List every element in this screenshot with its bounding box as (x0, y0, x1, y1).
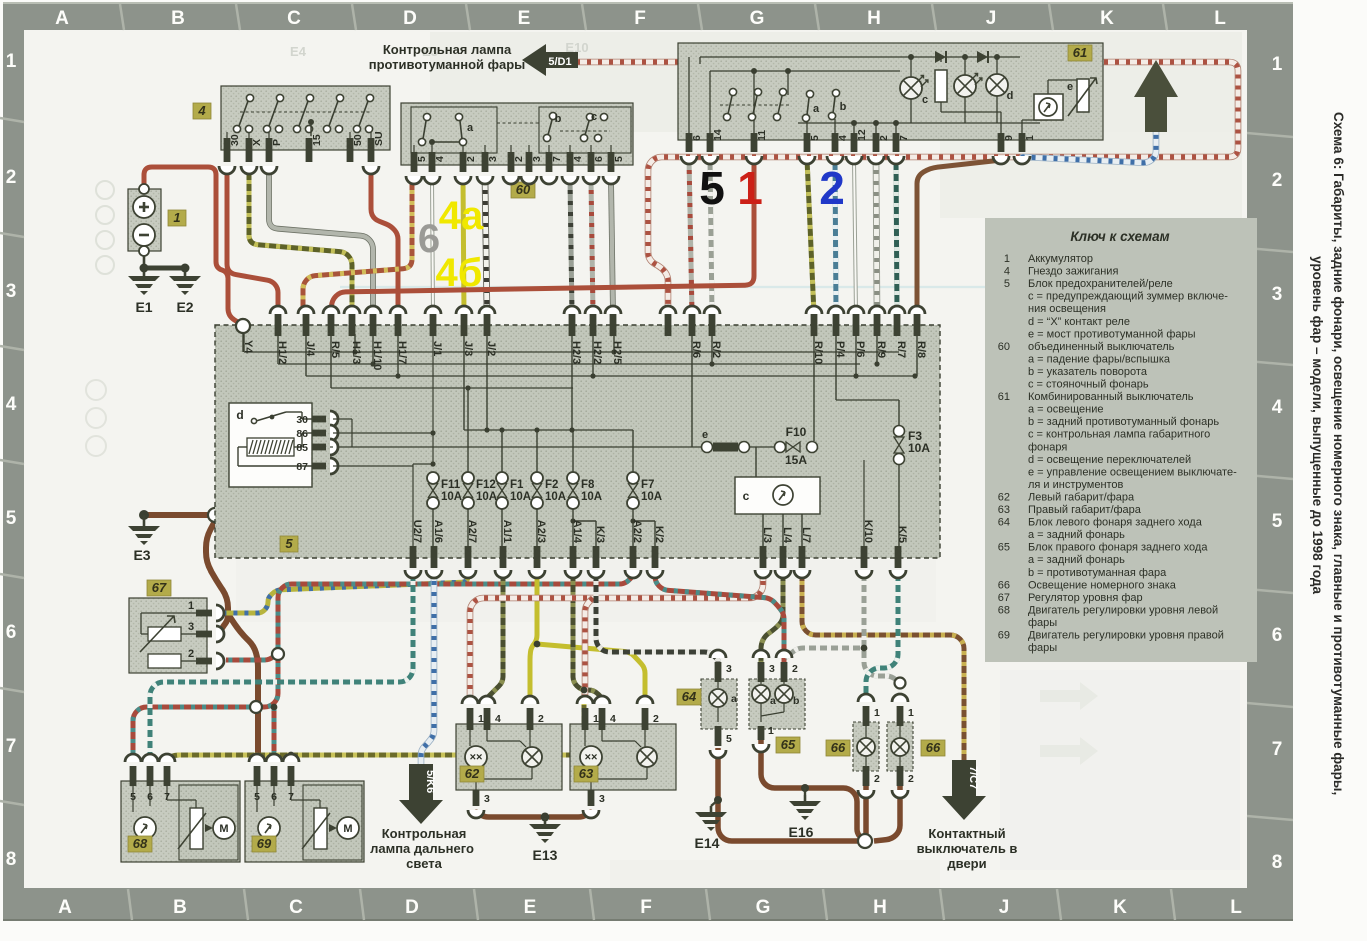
svg-text:E1: E1 (135, 299, 152, 315)
ground E13 (529, 818, 561, 863)
junction dot E13 (541, 813, 550, 822)
svg-text:J/3: J/3 (462, 341, 474, 356)
svg-text:3: 3 (599, 793, 605, 805)
svg-text:64: 64 (682, 689, 697, 704)
svg-text:87: 87 (296, 461, 308, 473)
svg-text:SU: SU (373, 131, 385, 146)
svg-text:F8: F8 (581, 479, 595, 491)
svg-text:F: F (640, 897, 652, 918)
svg-text:b: b (840, 101, 847, 113)
wire 61.12-P/6 (854, 159, 856, 314)
svg-text:P/4: P/4 (834, 341, 846, 358)
svg-text:Y4: Y4 (242, 340, 254, 354)
badge 65 (776, 737, 800, 753)
svg-text:66: 66 (831, 740, 846, 755)
junction dot E14 (714, 796, 722, 804)
svg-text:H1/10: H1/10 (371, 341, 383, 370)
svg-text:15A: 15A (785, 453, 807, 467)
svg-text:66: 66 (926, 740, 941, 755)
svg-text:63: 63 (998, 504, 1010, 516)
gauge 61 (1034, 94, 1063, 120)
svg-text:4: 4 (197, 103, 206, 118)
node red/teal bundle junction 2 (272, 648, 284, 660)
gauge 69 (258, 817, 280, 839)
block 65 reversing/foglamp unit right (749, 679, 805, 729)
svg-text:c = контрольная лампа габаритн: c = контрольная лампа габаритного (1028, 429, 1210, 441)
svg-text:4б: 4б (436, 251, 483, 295)
svg-text:Комбинированный выключатель: Комбинированный выключатель (1028, 391, 1194, 403)
junction dot 69.6 tap (271, 704, 278, 711)
svg-text:4: 4 (495, 713, 501, 725)
wire L/4-65.3 (761, 570, 783, 662)
svg-text:62: 62 (465, 766, 480, 781)
svg-text:30: 30 (229, 134, 241, 146)
svg-text:5/K6: 5/K6 (424, 770, 436, 793)
wire 60.4-J/1w (432, 179, 433, 314)
rheostat 61.e (1077, 79, 1089, 112)
svg-text:J/1: J/1 (431, 341, 443, 356)
svg-text:A2/7: A2/7 (466, 520, 478, 543)
fuse F1 (496, 472, 508, 484)
wire 61.11-R/5 (331, 159, 754, 314)
svg-text:Ключ к схемам: Ключ к схемам (1070, 229, 1169, 244)
svg-text:M: M (219, 823, 228, 835)
svg-text:F1: F1 (510, 479, 524, 491)
svg-text:Контактный: Контактный (928, 826, 1005, 841)
wire E16-bus (805, 788, 862, 839)
svg-text:Регулятор уровня фар: Регулятор уровня фар (1028, 592, 1143, 604)
svg-text:a = падение фары/вспышка: a = падение фары/вспышка (1028, 353, 1171, 365)
wire 61.5-R/10 (807, 159, 814, 314)
svg-text:фонаря: фонаря (1028, 441, 1067, 453)
wire 62.3-E13 (476, 812, 541, 817)
svg-text:Блок левого фонаря заднего ход: Блок левого фонаря заднего хода (1028, 517, 1203, 529)
svg-text:b = противотуманная фара: b = противотуманная фара (1028, 567, 1167, 579)
svg-text:d = освещение переключателей: d = освещение переключателей (1028, 454, 1191, 466)
svg-text:5: 5 (699, 162, 725, 214)
svg-text:e: e (702, 429, 708, 441)
motor M 68 (213, 817, 235, 839)
svg-text:Схема 6: Габариты, задние фона: Схема 6: Габариты, задние фонари, освеще… (1331, 112, 1346, 795)
wire 61.2-R/9 (876, 159, 877, 314)
svg-text:68: 68 (998, 604, 1010, 616)
svg-text:a = освещение: a = освещение (1028, 404, 1104, 416)
fuse F3 10A (894, 426, 905, 437)
badge 66 (826, 740, 850, 756)
svg-text:D: D (403, 8, 417, 29)
legend key box (985, 218, 1257, 662)
svg-text:A: A (58, 897, 72, 918)
svg-text:c: c (743, 489, 750, 503)
junction dot K10 tap (861, 645, 868, 652)
svg-text:Правый габарит/фара: Правый габарит/фара (1028, 504, 1142, 516)
svg-text:7: 7 (1272, 739, 1283, 760)
svg-text:K/3: K/3 (594, 526, 606, 543)
svg-text:фары: фары (1028, 617, 1057, 629)
svg-text:6: 6 (271, 791, 277, 803)
fuse F10 15A (775, 442, 786, 453)
badge 63 (574, 766, 598, 782)
svg-text:R/6: R/6 (690, 341, 702, 358)
svg-text:7/C7: 7/C7 (967, 766, 979, 789)
badge 64 (677, 689, 701, 705)
svg-text:8: 8 (6, 849, 17, 870)
svg-text:выключатель в: выключатель в (917, 841, 1018, 856)
badge 1 (168, 210, 186, 226)
block 64 pin 3 top (715, 662, 732, 682)
box c with gauge (735, 477, 820, 514)
svg-text:a = задний фонарь: a = задний фонарь (1028, 529, 1125, 541)
svg-text:12: 12 (856, 129, 868, 141)
wire SU-H1/7 (371, 169, 398, 314)
svg-text:1: 1 (874, 707, 880, 719)
fuse F2 (531, 472, 543, 484)
block 5 fuse and relay box (215, 325, 940, 558)
svg-text:2: 2 (513, 156, 525, 162)
wire brk-69.6 (272, 707, 277, 758)
svg-text:1: 1 (1004, 253, 1010, 265)
svg-text:2: 2 (538, 713, 544, 725)
diode D2 (977, 51, 988, 63)
svg-text:b = задний противотуманный фон: b = задний противотуманный фонарь (1028, 416, 1219, 428)
block 68 headlight levelling motor (121, 781, 240, 862)
block 63 front lamp cluster (570, 724, 676, 790)
wire 61.6-R/6 (689, 159, 692, 314)
svg-text:66: 66 (998, 579, 1010, 591)
svg-text:H2/3: H2/3 (570, 341, 582, 364)
wire 60c4-H2/3 (570, 179, 572, 314)
wire olive-68.7 (167, 690, 584, 758)
wire L/3-63.1 (585, 598, 593, 704)
svg-text:86: 86 (296, 428, 308, 440)
svg-text:4: 4 (610, 713, 616, 725)
battery 1 (128, 184, 161, 256)
svg-text:J: J (999, 897, 1010, 918)
svg-text:F: F (634, 8, 646, 29)
svg-text:6: 6 (691, 135, 703, 141)
svg-text:7: 7 (551, 156, 563, 162)
svg-text:5: 5 (726, 733, 732, 745)
node Y4 (236, 319, 250, 333)
lamp 61.c (900, 77, 922, 99)
svg-text:A: A (55, 8, 69, 29)
svg-text:D: D (405, 897, 419, 918)
wire 63.3-E13 (549, 812, 591, 817)
svg-text:1: 1 (478, 713, 484, 725)
svg-text:5: 5 (130, 791, 136, 803)
svg-text:6: 6 (6, 622, 17, 643)
junction dot olive tap (581, 687, 588, 694)
svg-text:Аккумулятор: Аккумулятор (1028, 253, 1093, 265)
svg-text:A1/6: A1/6 (432, 520, 444, 543)
svg-text:Контрольная: Контрольная (382, 826, 467, 841)
wire A2/3-62.2 (530, 570, 537, 704)
svg-text:2: 2 (792, 663, 798, 675)
svg-text:3: 3 (487, 156, 499, 162)
lamp 63 twin filament (580, 746, 602, 768)
svg-text:5: 5 (1272, 511, 1283, 532)
wire node-69.5 (228, 614, 258, 756)
svg-text:Контрольная лампа: Контрольная лампа (383, 42, 512, 57)
badge 5 (280, 536, 298, 552)
svg-text:4: 4 (434, 156, 446, 162)
svg-text:5: 5 (1004, 278, 1010, 290)
resistor 61 (935, 70, 947, 102)
svg-text:15: 15 (311, 134, 323, 146)
lamp 66R (891, 738, 909, 756)
svg-text:65: 65 (781, 737, 796, 752)
svg-text:10A: 10A (441, 491, 462, 503)
lamp 66L (857, 738, 875, 756)
svg-text:30: 30 (296, 414, 308, 426)
svg-text:F12: F12 (476, 479, 496, 491)
svg-text:c: c (591, 111, 597, 123)
wire 61.9-R/8 (917, 159, 1001, 314)
svg-text:60: 60 (998, 341, 1010, 353)
svg-text:U2/7: U2/7 (411, 520, 423, 543)
wire A1/1-62.4 (487, 570, 503, 704)
ghost bleed-through texture (86, 32, 1242, 888)
ground E14 (711, 800, 718, 806)
block 69 pins 5 6 7 (254, 766, 261, 803)
svg-text:Двигатель регулировки уровня л: Двигатель регулировки уровня левой (1028, 604, 1218, 616)
wire L/7-7C7 (802, 570, 964, 760)
block 68 pins 5 6 7 (130, 766, 137, 803)
node red/teal bundle junction 1 (250, 701, 262, 713)
lamp 63 single (637, 747, 657, 767)
block 4 ignition switch (221, 86, 390, 150)
block 60 pins (411, 152, 428, 172)
svg-text:J/4: J/4 (304, 341, 316, 357)
arrow 5/D1 (522, 44, 578, 76)
wire K/5-66L (866, 570, 898, 702)
svg-text:H1/3: H1/3 (350, 341, 362, 364)
svg-text:C: C (289, 897, 303, 918)
svg-text:2: 2 (6, 167, 17, 188)
svg-text:противотуманной фары: противотуманной фары (369, 57, 526, 72)
badge 68 (128, 836, 152, 852)
block 4 pins 30 X P 15 50 SU (224, 134, 241, 162)
block 67 headlight range regulator (129, 598, 207, 673)
svg-text:10A: 10A (510, 491, 531, 503)
ground E1 (128, 270, 160, 315)
wire 60.5-J/4 (303, 179, 412, 314)
svg-text:4: 4 (837, 135, 849, 141)
svg-text:Освещение номерного знака: Освещение номерного знака (1028, 579, 1177, 591)
wire E3-node (146, 512, 212, 518)
svg-text:1: 1 (188, 600, 194, 612)
wire 60.3-J/2 (485, 179, 487, 314)
svg-text:K/10: K/10 (862, 520, 874, 543)
svg-text:61: 61 (1073, 45, 1087, 60)
svg-text:85: 85 (296, 442, 308, 454)
svg-text:7: 7 (898, 135, 910, 141)
ground E16 (804, 788, 806, 795)
wire 61.1-arrow (1022, 130, 1156, 163)
wire L/3-62.1 (470, 570, 763, 704)
svg-text:a = задний фонарь: a = задний фонарь (1028, 554, 1125, 566)
node Y4 junction (236, 319, 250, 333)
svg-text:K: K (1113, 897, 1127, 918)
svg-text:a: a (467, 122, 474, 134)
block 66L number plate lamp (853, 722, 879, 771)
svg-text:3: 3 (1272, 284, 1283, 305)
block 65 pin 1 bottom (758, 725, 774, 740)
svg-text:B: B (171, 8, 185, 29)
svg-text:4: 4 (572, 156, 584, 162)
lamp 61.d (986, 74, 1008, 96)
lamp 65.b (775, 685, 793, 703)
svg-text:2: 2 (1272, 170, 1283, 191)
svg-text:69: 69 (257, 836, 272, 851)
svg-text:ния освещения: ния освещения (1028, 303, 1106, 315)
svg-text:G: G (750, 8, 765, 29)
svg-text:L/3: L/3 (761, 527, 773, 543)
svg-text:H: H (873, 897, 887, 918)
diode D1 (935, 51, 946, 63)
svg-text:уровень фар – модели, выпущенн: уровень фар – модели, выпущенные до 1998… (1310, 256, 1325, 594)
svg-text:62: 62 (998, 491, 1010, 503)
svg-text:69: 69 (998, 630, 1010, 642)
svg-text:L: L (1230, 897, 1242, 918)
ground E2 (169, 270, 201, 315)
block 64 reversing lamp unit left (701, 679, 737, 729)
resistor 69 (314, 808, 327, 849)
svg-text:J: J (986, 8, 997, 29)
badge 69 (252, 836, 276, 852)
svg-text:Двигатель регулировки уровня п: Двигатель регулировки уровня правой (1028, 630, 1224, 642)
svg-text:e = управление освещением выкл: e = управление освещением выключате- (1028, 466, 1237, 478)
svg-text:5: 5 (254, 791, 260, 803)
wire K/10-66R (864, 570, 900, 702)
svg-text:ля и инструментов: ля и инструментов (1028, 479, 1124, 491)
wire 61.7-R/7 (896, 159, 897, 314)
fuse F7 (627, 472, 639, 484)
svg-text:R/9: R/9 (875, 341, 887, 358)
junction dot E3 (139, 510, 149, 520)
wire olive-69.7 (289, 755, 294, 758)
svg-text:a: a (731, 693, 737, 705)
node brown bus junction (858, 834, 872, 848)
svg-text:Левый габарит/фара: Левый габарит/фара (1028, 491, 1135, 503)
svg-text:61: 61 (998, 391, 1010, 403)
svg-text:A2/3: A2/3 (535, 520, 547, 543)
svg-text:3: 3 (726, 663, 732, 675)
svg-text:L: L (1214, 8, 1226, 29)
ground E3 (143, 515, 146, 520)
svg-text:e: e (1067, 81, 1073, 93)
wire A2/3-63.2 (537, 644, 645, 704)
svg-text:a: a (813, 103, 820, 115)
junction dot A2/3 split (534, 641, 541, 648)
svg-text:E14: E14 (695, 835, 720, 851)
lamp 62 single (522, 747, 542, 767)
block 62 pins 1 4 2 (467, 708, 484, 730)
svg-text:H1/2: H1/2 (276, 341, 288, 364)
svg-text:6: 6 (1272, 625, 1283, 646)
svg-text:10A: 10A (641, 491, 662, 503)
svg-text:Гнездо зажигания: Гнездо зажигания (1028, 266, 1118, 278)
svg-text:F2: F2 (545, 479, 558, 491)
svg-text:1: 1 (737, 162, 763, 214)
svg-text:Блок правого фонаря заднего хо: Блок правого фонаря заднего хода (1028, 542, 1208, 554)
block 66L pin 2 (863, 766, 880, 786)
block 5 bottom pins (405, 520, 423, 578)
svg-text:1: 1 (173, 210, 180, 225)
relay d (229, 403, 312, 487)
svg-text:H2/5: H2/5 (611, 341, 623, 364)
svg-text:8: 8 (1272, 852, 1283, 873)
svg-text:2: 2 (653, 713, 659, 725)
svg-text:K: K (1100, 8, 1114, 29)
wire 66L2-bus (863, 782, 869, 841)
svg-text:3: 3 (6, 281, 17, 302)
svg-text:лампа дальнего: лампа дальнего (370, 841, 474, 856)
badge 66 (921, 740, 945, 756)
block 66R pin 2 (897, 766, 914, 786)
svg-text:6: 6 (593, 156, 605, 162)
svg-text:4: 4 (1272, 397, 1283, 418)
svg-text:6: 6 (147, 791, 153, 803)
svg-text:2: 2 (874, 773, 880, 785)
svg-text:9: 9 (1003, 135, 1015, 141)
svg-text:5: 5 (613, 156, 625, 162)
svg-text:5: 5 (416, 156, 428, 162)
fuse F11 (427, 472, 439, 484)
block 64 pin 5 bottom (715, 726, 732, 746)
svg-text:R/10: R/10 (812, 341, 824, 364)
wire K/3-64.3 (596, 570, 718, 662)
svg-text:d = “X” контакт реле: d = “X” контакт реле (1028, 316, 1130, 328)
arrow 7/C7 (942, 760, 986, 820)
svg-text:R/7: R/7 (895, 341, 907, 358)
svg-text:3: 3 (188, 621, 194, 633)
block 66R number plate lamp (887, 722, 913, 771)
svg-text:10A: 10A (545, 491, 566, 503)
svg-text:L/7: L/7 (800, 527, 812, 543)
svg-text:4: 4 (1004, 266, 1010, 278)
svg-text:2: 2 (878, 135, 890, 141)
svg-text:6: 6 (418, 217, 440, 261)
svg-text:A1/1: A1/1 (501, 520, 513, 543)
wire brk-68.5 (133, 652, 278, 758)
svg-text:H1/7: H1/7 (396, 341, 408, 364)
svg-text:4: 4 (6, 394, 17, 415)
svg-text:2: 2 (188, 648, 194, 660)
svg-text:7: 7 (288, 791, 294, 803)
svg-text:b = указатель поворота: b = указатель поворота (1028, 366, 1148, 378)
wire 30-H1/2 (227, 169, 278, 314)
wire A1/6-5K6 (421, 570, 434, 764)
node grey junction at 66R (895, 678, 906, 689)
wire node-67.3 (206, 521, 228, 634)
badge 61 (1068, 45, 1092, 61)
wire A2/7-67.1 (222, 570, 468, 613)
svg-text:R/2: R/2 (710, 341, 722, 358)
svg-text:63: 63 (579, 766, 594, 781)
svg-text:5: 5 (809, 135, 821, 141)
svg-text:7: 7 (6, 736, 17, 757)
arrow 5/K6 (399, 764, 443, 824)
junction dot 69.7 tap (288, 752, 295, 759)
block 66R pin 1 (897, 706, 914, 726)
wire 60.2-J/3 (463, 179, 464, 314)
svg-text:11: 11 (756, 130, 768, 141)
lamp 61 mid (954, 75, 976, 97)
svg-text:F11: F11 (441, 479, 461, 491)
svg-text:F7: F7 (641, 479, 654, 491)
svg-text:E4: E4 (290, 44, 307, 59)
